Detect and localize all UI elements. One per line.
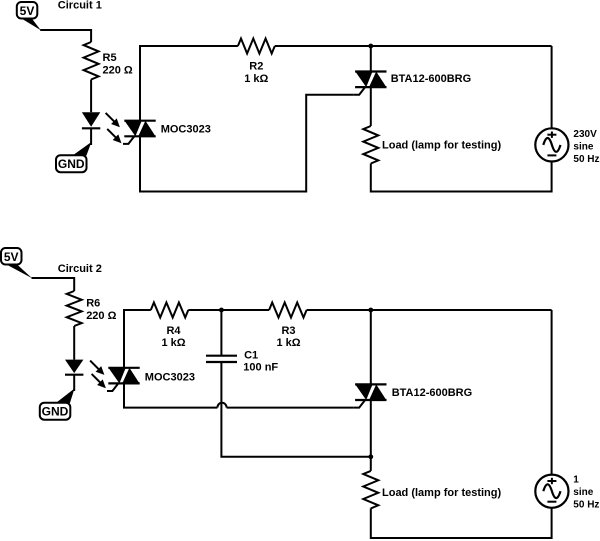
svg-text:R6: R6 [86, 297, 100, 309]
svg-text:GND: GND [42, 405, 69, 419]
label 1 sine 50 Hz [573, 475, 599, 511]
label MOC3023 (circuit 1) [161, 124, 211, 136]
label Load (lamp for testing) (circuit 2) [382, 487, 502, 499]
junction [368, 308, 373, 313]
junction [368, 44, 373, 49]
wire [370, 310, 372, 384]
svg-text:BTA12-600BRG: BTA12-600BRG [392, 387, 473, 399]
svg-text:1: 1 [573, 475, 579, 486]
svg-text:R4: R4 [166, 325, 181, 337]
svg-text:Circuit 2: Circuit 2 [58, 263, 102, 275]
svg-text:Load (lamp for testing): Load (lamp for testing) [382, 140, 502, 152]
label R3 1 k&#937; [276, 325, 300, 349]
svg-text:R5: R5 [103, 52, 117, 64]
resistor Load (circuit 2) [363, 471, 378, 509]
supply 5V (circuit 1) [17, 2, 41, 30]
wire [220, 310, 222, 356]
svg-text:Load (lamp for testing): Load (lamp for testing) [382, 487, 502, 499]
svg-text:sine: sine [573, 487, 593, 498]
junction [368, 454, 373, 459]
svg-text:sine: sine [573, 142, 593, 153]
wire [73, 326, 75, 360]
wire [307, 309, 552, 311]
ground GND (circuit 2) [40, 389, 75, 420]
AC source 230V (circuit 1) [535, 128, 568, 161]
resistor R4 [151, 303, 189, 318]
supply 5V (circuit 2) [1, 248, 32, 278]
resistor R6 [67, 291, 82, 326]
AC source 1V sine (circuit 2) [535, 475, 568, 508]
wire (gate return, circuit 1) [140, 95, 354, 192]
wire [551, 46, 553, 128]
wire [188, 309, 269, 311]
label R5 220 &#937; [103, 52, 133, 76]
svg-text:1 kΩ: 1 kΩ [244, 73, 268, 85]
label R4 1 k&#937; [161, 325, 185, 349]
label 230V sine 50 Hz [573, 129, 599, 165]
svg-text:5V: 5V [20, 4, 35, 18]
LED of optocoupler (circuit 2) [65, 360, 83, 375]
label R6 220 &#937; [86, 297, 116, 321]
wire [370, 87, 372, 126]
wire [140, 46, 238, 121]
svg-text:C1: C1 [244, 349, 258, 361]
label Load (lamp for testing) (circuit 1) [382, 140, 502, 152]
wire [73, 375, 75, 391]
svg-text:50 Hz: 50 Hz [573, 154, 599, 165]
svg-text:5V: 5V [4, 250, 19, 264]
resistor R3 [269, 303, 307, 318]
wire [90, 128, 92, 145]
LED of optocoupler (circuit 1) [82, 112, 100, 128]
svg-text:220 Ω: 220 Ω [86, 310, 116, 322]
svg-text:50 Hz: 50 Hz [573, 499, 599, 510]
triac BTA12-600BRG (circuit 1) [354, 72, 387, 95]
svg-text:R3: R3 [281, 325, 295, 337]
ground GND (circuit 1) [56, 142, 91, 172]
label C1 100 nF [243, 349, 278, 373]
svg-text:100 nF: 100 nF [243, 362, 278, 374]
wire (gate to optocoupler, circuit 2) [124, 383, 354, 407]
svg-text:BTA12-600BRG: BTA12-600BRG [391, 73, 472, 85]
junction [219, 308, 224, 313]
svg-text:R2: R2 [249, 60, 263, 72]
svg-text:Circuit 1: Circuit 1 [58, 0, 102, 12]
svg-text:220 Ω: 220 Ω [103, 65, 133, 77]
label Circuit 2 [58, 263, 102, 275]
svg-text:230V: 230V [573, 129, 597, 140]
triac BTA12-600BRG (circuit 2) [354, 384, 387, 407]
light arrows (circuit 1) [106, 113, 122, 143]
svg-text:1 kΩ: 1 kΩ [161, 337, 185, 349]
label BTA12-600BRG (circuit 2) [392, 387, 473, 399]
wire [370, 400, 372, 471]
wire [32, 278, 75, 291]
svg-text:MOC3023: MOC3023 [161, 124, 211, 136]
label Circuit 1 [58, 0, 102, 12]
label R2 1 k&#937; [244, 60, 268, 84]
wire [275, 45, 552, 47]
wire [124, 310, 151, 368]
svg-text:MOC3023: MOC3023 [145, 371, 195, 383]
wire [370, 46, 372, 72]
resistor R2 [238, 39, 275, 54]
wire [221, 362, 370, 457]
light arrows (circuit 2) [90, 361, 106, 389]
svg-text:1 kΩ: 1 kΩ [276, 337, 300, 349]
label BTA12-600BRG (circuit 1) [391, 73, 472, 85]
wire [371, 162, 552, 192]
resistor Load (circuit 1) [363, 126, 378, 164]
wire [90, 80, 92, 113]
wire [551, 310, 553, 475]
label MOC3023 (circuit 2) [145, 371, 195, 383]
triac of optocoupler MOC3023 (circuit 1) [123, 121, 156, 144]
resistor R5 [84, 42, 99, 80]
capacitor C1 [206, 356, 237, 362]
wire [371, 508, 552, 538]
triac of optocoupler MOC3023 (circuit 2) [107, 368, 140, 391]
wire [40, 30, 91, 42]
svg-text:GND: GND [58, 157, 85, 171]
